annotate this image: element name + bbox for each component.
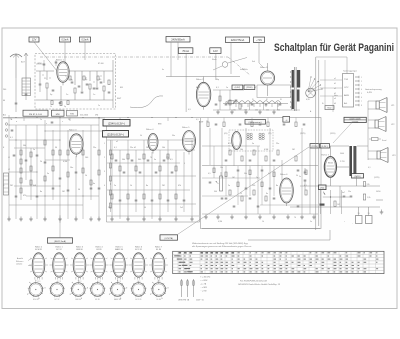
svg-text:25n: 25n [93,147,96,149]
table header shading [179,252,235,253]
svg-text:12V: 12V [213,49,218,53]
svg-text:0,1: 0,1 [216,87,219,89]
power transformer [292,67,301,111]
svg-text:a1: a1 [334,78,336,80]
band label box LW [67,110,78,116]
svg-text:0,1: 0,1 [114,147,117,149]
svg-text:Röhre 2: Röhre 2 [196,78,204,81]
svg-text:(234V) (6,3V~): (234V) (6,3V~) [108,122,125,126]
UKW extra internals [36,60,110,106]
audio resistors [229,150,307,201]
band label box KW [52,110,65,116]
meter box 240V/85mA [166,37,190,43]
leader wire from 12V box [34,42,57,71]
mains fuse [226,101,237,104]
svg-text:EL 84: EL 84 [157,299,161,301]
AM block capacitors [11,122,101,197]
svg-text:12V: 12V [32,38,37,42]
svg-text:5000: 5000 [340,153,344,155]
leader wire 220V/75mA [230,43,232,75]
output transformer [349,146,356,176]
tube socket diagram EF 89 [90,246,109,282]
svg-text:EABC 80: EABC 80 [114,298,121,301]
svg-text:Ant: Ant [3,114,6,117]
svg-text:1k: 1k [262,221,264,223]
svg-text:EABC 80: EABC 80 [115,248,123,251]
svg-text:LP2: LP2 [391,124,394,126]
svg-text:○ = MW: ○ = MW [201,287,208,289]
svg-text:1M: 1M [292,149,295,151]
svg-text:• = UKW: • = UKW [201,280,208,282]
electrolytic cap 50uF B [366,213,373,224]
svg-text:1k: 1k [70,79,72,81]
crossover capacitor [369,138,386,143]
svg-text:GTV: GTV [344,87,349,89]
scatter labels B [8,79,312,223]
svg-text:5: 5 [361,93,362,95]
capacitor C2 [52,89,55,91]
AM block vertical wires [9,115,99,223]
ratio detector coil A [247,133,252,141]
svg-text:Röhre 3: Röhre 3 [69,129,77,132]
tube socket diagram EL 84 [149,246,168,282]
svg-text:(215V) (6,3V~): (215V) (6,3V~) [107,133,124,137]
label box under output transformer [352,174,364,179]
svg-text:(80V/2,5mA): (80V/2,5mA) [54,240,66,243]
svg-text:− = KW: − = KW [201,291,207,293]
svg-text:EC 92: EC 92 [56,249,61,251]
tube Roehre 3 EBF [69,129,77,132]
tone capacitor pair [342,192,352,197]
IF strip wires [213,90,300,110]
wires to switch bank [320,60,342,112]
dial lamp [306,88,316,98]
tuning indicator pulley [213,58,247,71]
meter box ~70V [254,37,265,43]
svg-text:70: 70 [150,157,152,159]
UKW tuner dashed enclosure [35,54,116,110]
svg-text:50k: 50k [122,159,125,161]
meter box 12V [29,37,39,42]
svg-text:EC 92: EC 92 [55,299,60,301]
svg-text:Für RUNDFUNK-Großhandel: Für RUNDFUNK-Großhandel [240,280,268,283]
audio extra wires [202,146,318,205]
rectifier tube Roehre 8 [260,63,275,96]
wire antenna feed [3,78,27,112]
svg-text:△ = TA: △ = TA [201,283,207,286]
svg-text:25n: 25n [130,147,133,149]
mains switch label box [325,106,334,110]
tube base pinout EABC 80 [109,280,127,302]
IF strip ground symbols [216,110,276,115]
svg-text:c: c [62,121,63,123]
svg-text:5k: 5k [140,135,142,137]
tube base pinout EBF 80 [70,280,88,302]
capacitor C4 [96,87,99,89]
svg-text:(0V): (0V) [224,133,228,135]
AM block ground symbols [7,217,101,222]
UKW coil former [22,78,31,96]
svg-text:70mA: 70mA [182,49,189,53]
tube Roehre 1 UKW [56,59,65,62]
svg-text:0,1: 0,1 [196,119,199,121]
svg-text:0,5: 0,5 [208,173,211,175]
svg-text:100: 100 [85,157,88,159]
svg-text:127: 127 [244,110,247,112]
svg-text:5k: 5k [296,175,298,177]
label box 280V [283,117,290,123]
right note text [365,88,382,94]
svg-text:10n: 10n [70,167,73,169]
leader 220V box [59,215,61,238]
svg-text:EM: EM [158,124,161,126]
leader wire 0,5mA A [64,42,66,64]
svg-text:Lötseite: Lötseite [16,263,22,266]
speaker LP2 [375,117,386,132]
audio extra resistors [213,168,307,187]
resistor R3 [89,84,91,89]
label box GTV bottom [160,235,178,240]
svg-text:5n: 5n [252,143,254,145]
audio top component row [207,118,305,127]
svg-text:~4: ~4 [285,120,287,122]
svg-text:1: 1 [361,77,362,79]
svg-text:0,5mA: 0,5mA [62,39,69,42]
svg-text:2n: 2n [256,177,258,179]
svg-text:5n: 5n [154,159,156,161]
svg-text:EBF 80: EBF 80 [75,299,81,301]
preamp resistors [111,154,177,199]
svg-text:Röhren v.: Röhren v. [16,261,24,263]
svg-text:50/50: 50/50 [376,191,381,193]
heater wiring fan [308,76,323,92]
svg-text:x: x [46,123,47,125]
svg-text:60: 60 [3,100,5,102]
svg-text:ECH 81: ECH 81 [35,249,42,251]
AM block horizontal wires [3,118,105,205]
svg-text:2n: 2n [114,185,116,187]
svg-text:300: 300 [214,191,217,193]
svg-text:0,5M: 0,5M [218,221,222,223]
UKW bottom row capacitor [59,102,62,104]
tube Roehre 7 EL84 [322,153,330,156]
terminal strip [355,76,362,107]
preamp capacitors [115,160,186,201]
svg-text:1k: 1k [85,175,87,177]
svg-text:Netz: Netz [334,94,338,97]
svg-text:LP1: LP1 [391,105,394,107]
svg-text:Z 259: Z 259 [340,161,345,163]
tube Roehre 5 EABC [182,126,190,129]
svg-text:5p: 5p [64,106,66,108]
speaker LP1 [376,98,387,113]
tube Roehre 2 ECH81 [196,78,204,81]
svg-text:0,1: 0,1 [304,185,307,187]
svg-text:220V/75mA: 220V/75mA [231,38,245,42]
tube socket diagram EC 92 [50,246,69,282]
diagonal wire near 222V boxes [333,123,352,144]
table tube name stair [174,255,193,272]
svg-text:0,45V: 0,45V [367,92,373,94]
tube socket diagram ECH 81 [29,246,48,282]
tube socket diagram EBF 80 [70,246,89,282]
preamp section edge wire [107,121,200,222]
tube Roehre 4 EF [146,128,154,131]
speaker LP3 [377,148,388,163]
switch contact text column [334,78,336,105]
svg-text:L1: L1 [8,157,10,159]
UKW wires [36,60,113,108]
table cell text marks [179,252,379,272]
svg-text:1,2k: 1,2k [367,197,370,199]
tube socket diagram EABC 80 [110,246,129,282]
svg-text:2k: 2k [68,119,70,121]
svg-text:1n: 1n [40,119,42,121]
svg-text:10n: 10n [220,167,223,169]
tube ratio detector [232,132,242,150]
bottom bus wire [202,227,320,229]
svg-text:a1: a1 [116,141,118,143]
svg-text:FHT: FHT [117,98,122,100]
svg-text:ECH 81: ECH 81 [33,299,39,301]
UKW bottom labels [37,63,104,108]
band label box AM [23,110,48,116]
electrolytic cap 50uF A [356,213,363,224]
svg-text:(241V): (241V) [374,177,380,179]
svg-text:Ansicht: Ansicht [17,257,23,260]
svg-text:220V~ 50: 220V~ 50 [196,300,204,302]
svg-text:30n: 30n [172,135,175,137]
svg-text:2k: 2k [40,161,42,163]
tube base pinout ECH 81 [27,280,45,302]
arrow from 7Z box [323,191,326,196]
svg-text:4x: 4x [162,69,164,71]
svg-text:1: 1 [104,143,105,145]
svg-text:+: + [344,221,345,223]
wire switchbank top [316,57,347,74]
svg-text:4n: 4n [93,183,95,185]
svg-text:220: 220 [266,110,269,112]
meter box 2mA [210,48,221,54]
audio extra capacitors [209,182,300,207]
svg-text:30p: 30p [216,79,219,81]
svg-text:470: 470 [23,195,26,197]
svg-text:f3: f3 [280,99,282,101]
coupling capacitor cluster [299,168,306,190]
label box 2xAZ right [244,85,255,90]
svg-text:Röhre 6: Röhre 6 [280,173,288,176]
leader wire 0,5mA B [84,42,86,60]
svg-text:25n: 25n [348,191,351,193]
antenna arrow [21,53,28,80]
svg-text:8n: 8n [276,185,278,187]
resistor under EL84 [334,201,340,207]
svg-text:(7000Ω): (7000Ω) [352,121,359,123]
svg-text:10k: 10k [162,147,165,149]
preamp vertical wires [112,140,192,219]
svg-text:5n: 5n [310,221,312,223]
voltage label box 6,3V [320,144,329,149]
svg-text:Geräuschspannung: Geräuschspannung [365,88,382,91]
svg-text:5n: 5n [299,176,301,178]
svg-text:ECC 81: ECC 81 [135,249,142,251]
IF strip capacitors [215,100,282,105]
UKW tiny value labels [44,78,102,96]
preamp ground symbols [110,217,194,222]
svg-text:Kond: Kond [382,140,386,142]
svg-text:Skala: Skala [212,59,217,61]
wire ECH81 anode [166,77,240,83]
svg-text:2: 2 [104,157,105,159]
svg-text:8n: 8n [146,185,148,187]
AM block resistors [20,140,100,193]
svg-text:50k: 50k [244,173,247,175]
tuning dial dash-dot line [40,56,228,58]
svg-text:0,1: 0,1 [368,167,371,169]
svg-text:1k: 1k [50,106,52,108]
scatter labels A [3,59,381,225]
label box germanium diode [245,120,266,125]
svg-text:25: 25 [206,121,208,123]
output section enclosure [201,118,322,229]
svg-text:7: 7 [361,101,362,103]
svg-text:12k: 12k [166,157,169,159]
ratio detector coil B [259,133,264,141]
dial cord diagonal [228,57,250,75]
meter box 0,5mA A [60,37,71,42]
svg-text:AG: AG [344,102,347,105]
svg-text:135: 135 [367,184,370,186]
IF value labels [216,87,282,101]
svg-text:1n: 1n [93,94,95,96]
svg-text:1M: 1M [62,191,65,193]
svg-text:25: 25 [240,193,242,195]
socket row left annotation [16,257,32,266]
main B+ bus wire [3,117,200,121]
svg-text:b2: b2 [134,147,136,149]
audio capacitors [225,160,300,199]
AM block value labels [10,121,96,197]
svg-text:(250V) (245V): (250V) (245V) [349,119,361,121]
svg-text:50k: 50k [23,145,26,147]
band bus text marks [3,114,98,117]
svg-text:a3: a3 [334,98,336,100]
svg-text:Schaltplan für Gerät Paganini: Schaltplan für Gerät Paganini [274,42,394,54]
svg-text:UKW: UKW [37,63,42,65]
voltage table [173,251,384,273]
tube base pinout EL 84 [150,280,168,302]
trimmer capacitor UKW [39,80,42,92]
tube socket diagram ECC 81 [129,246,148,282]
right lower wires [321,190,351,214]
svg-text:1n: 1n [33,149,35,151]
svg-text:2n5: 2n5 [180,207,183,209]
svg-text:(6,3V~): (6,3V~) [321,146,328,148]
svg-text:kHz: kHz [95,115,98,117]
svg-text:(290V): (290V) [246,87,252,89]
ferrite antenna coil [4,173,9,195]
svg-text:f=468kHz: f=468kHz [240,69,248,71]
svg-text:2: 2 [361,81,362,83]
voltage label box 217V/6,3V [103,131,129,138]
resistor R4 [103,86,105,91]
leader wire 240V/85mA [171,42,178,77]
svg-text:0,5: 0,5 [170,159,173,161]
label box 7Z [319,185,327,190]
svg-text:8n: 8n [266,193,268,195]
mains selector coil arcs [223,101,288,112]
svg-text:47k: 47k [178,185,181,187]
svg-text:4: 4 [361,89,362,91]
svg-text:25n: 25n [276,143,279,145]
svg-text:9: 9 [184,163,185,165]
svg-text:8n: 8n [40,191,42,193]
voltage label box 234V/6,3V [103,120,130,127]
svg-text:3: 3 [104,171,105,173]
svg-text:(202V): (202V) [300,133,306,135]
svg-text:6: 6 [361,97,362,99]
AM block junction dots [8,117,99,196]
svg-text:ECC 81: ECC 81 [136,299,142,301]
svg-text:LP3: LP3 [392,155,395,157]
svg-text:Netz: Netz [327,107,331,110]
svg-text:EBF 80: EBF 80 [76,249,82,251]
tube base pinout EC 92 [49,281,65,301]
leader wire ~70V [259,43,264,69]
svg-text:20n: 20n [108,207,111,209]
svg-text:0,5M: 0,5M [63,161,68,163]
svg-text:2n: 2n [98,105,100,107]
svg-text:Röhre 1: Röhre 1 [56,59,65,62]
black capacitor [320,204,325,206]
svg-text:4,3: 4,3 [188,109,191,111]
svg-text:4: 4 [104,185,105,187]
IF strip resistors [219,96,241,109]
svg-text:(245V): (245V) [354,176,360,178]
resistor R2 [74,88,76,93]
svg-text:300: 300 [138,159,141,161]
label box 2xAZ left [232,85,243,90]
svg-text:2M: 2M [162,185,165,187]
svg-text:f² = 460 kHz: f² = 460 kHz [201,276,211,279]
svg-text:1 2 3: 1 2 3 [37,281,41,283]
push button switch bank [343,74,354,108]
meter box 70mA [178,48,193,54]
preamp horizontal wires [107,140,199,216]
speaker wires [357,101,377,160]
svg-text:510-1620: 510-1620 [80,115,88,117]
svg-text:UKW FM TA: UKW FM TA [178,299,190,302]
rectifier enclosure box [257,85,291,97]
svg-text:2M: 2M [10,185,13,187]
tube base pinout EF 89 [89,281,105,301]
audio section wires [202,128,318,214]
UKW bottom row resistor A [51,101,53,105]
svg-text:70: 70 [294,217,296,219]
audio extra labels [208,167,298,195]
svg-text:0,1: 0,1 [10,137,13,139]
svg-text:Tastenaggregat: Tastenaggregat [343,70,357,73]
svg-text:Röhre 8: Röhre 8 [260,66,268,69]
svg-text:Widerstandswerte aus auf Stell: Widerstandswerte aus auf Stellung 220 Vo… [192,242,248,245]
meter box 0,5mA B [80,37,91,42]
ground right [380,210,384,215]
svg-text:8: 8 [361,105,362,107]
svg-text:1n: 1n [226,87,228,89]
svg-text:(205V): (205V) [330,133,336,135]
svg-text:0,5mA: 0,5mA [82,39,89,42]
svg-text:240: 240 [3,89,6,91]
